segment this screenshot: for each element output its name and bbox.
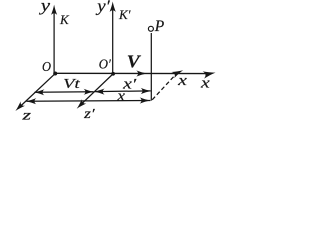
wire z'-axis line [80,74,113,106]
svg-text:P: P [154,18,165,35]
svg-text:z: z [21,108,32,121]
node O (origin of frame K) [53,72,57,76]
svg-text:Vt: Vt [63,77,81,92]
arrowhead dashed projection diagonal [171,67,184,78]
wire x' dimension line [95,90,151,93]
arrowhead velocity vector V [136,70,147,76]
wire y'-axis line [112,9,114,74]
arrowhead Vt dimension right [84,89,95,95]
wire dropline from point P [150,33,152,101]
svg-text:x: x [116,88,125,104]
arrowhead z-axis tip [13,101,25,113]
svg-text:x: x [200,75,210,91]
arrowhead x dimension right [140,97,151,103]
svg-text:V: V [127,52,141,72]
arrowhead x' dimension left [94,89,105,95]
wire y-axis line [53,12,55,74]
svg-text:y′: y′ [95,0,110,16]
arrowhead Vt dimension left [34,89,45,95]
wire x-axis line [54,72,206,74]
arrowhead y'-axis tip [110,1,116,12]
svg-text:O: O [42,60,51,75]
svg-text:O′: O′ [99,57,112,72]
svg-text:K′: K′ [118,7,131,22]
wire dashed projection diagonal [152,75,175,100]
svg-text:K: K [59,12,70,27]
wire x dimension line [26,100,150,103]
node P (point P circle) [148,26,153,31]
wire Vt dimension line [35,91,94,94]
svg-text:x: x [177,73,187,89]
svg-text:y: y [38,0,50,15]
arrowhead y-axis tip [51,5,57,16]
arrowhead x dimension left [26,98,37,104]
node O' (origin of frame K') [111,72,115,76]
wire z-axis line [18,74,55,109]
arrowhead x' dimension right [141,88,152,94]
arrowhead x-axis tip [203,69,217,79]
arrowhead z'-axis tip [74,99,86,111]
svg-text:z′: z′ [83,107,96,121]
